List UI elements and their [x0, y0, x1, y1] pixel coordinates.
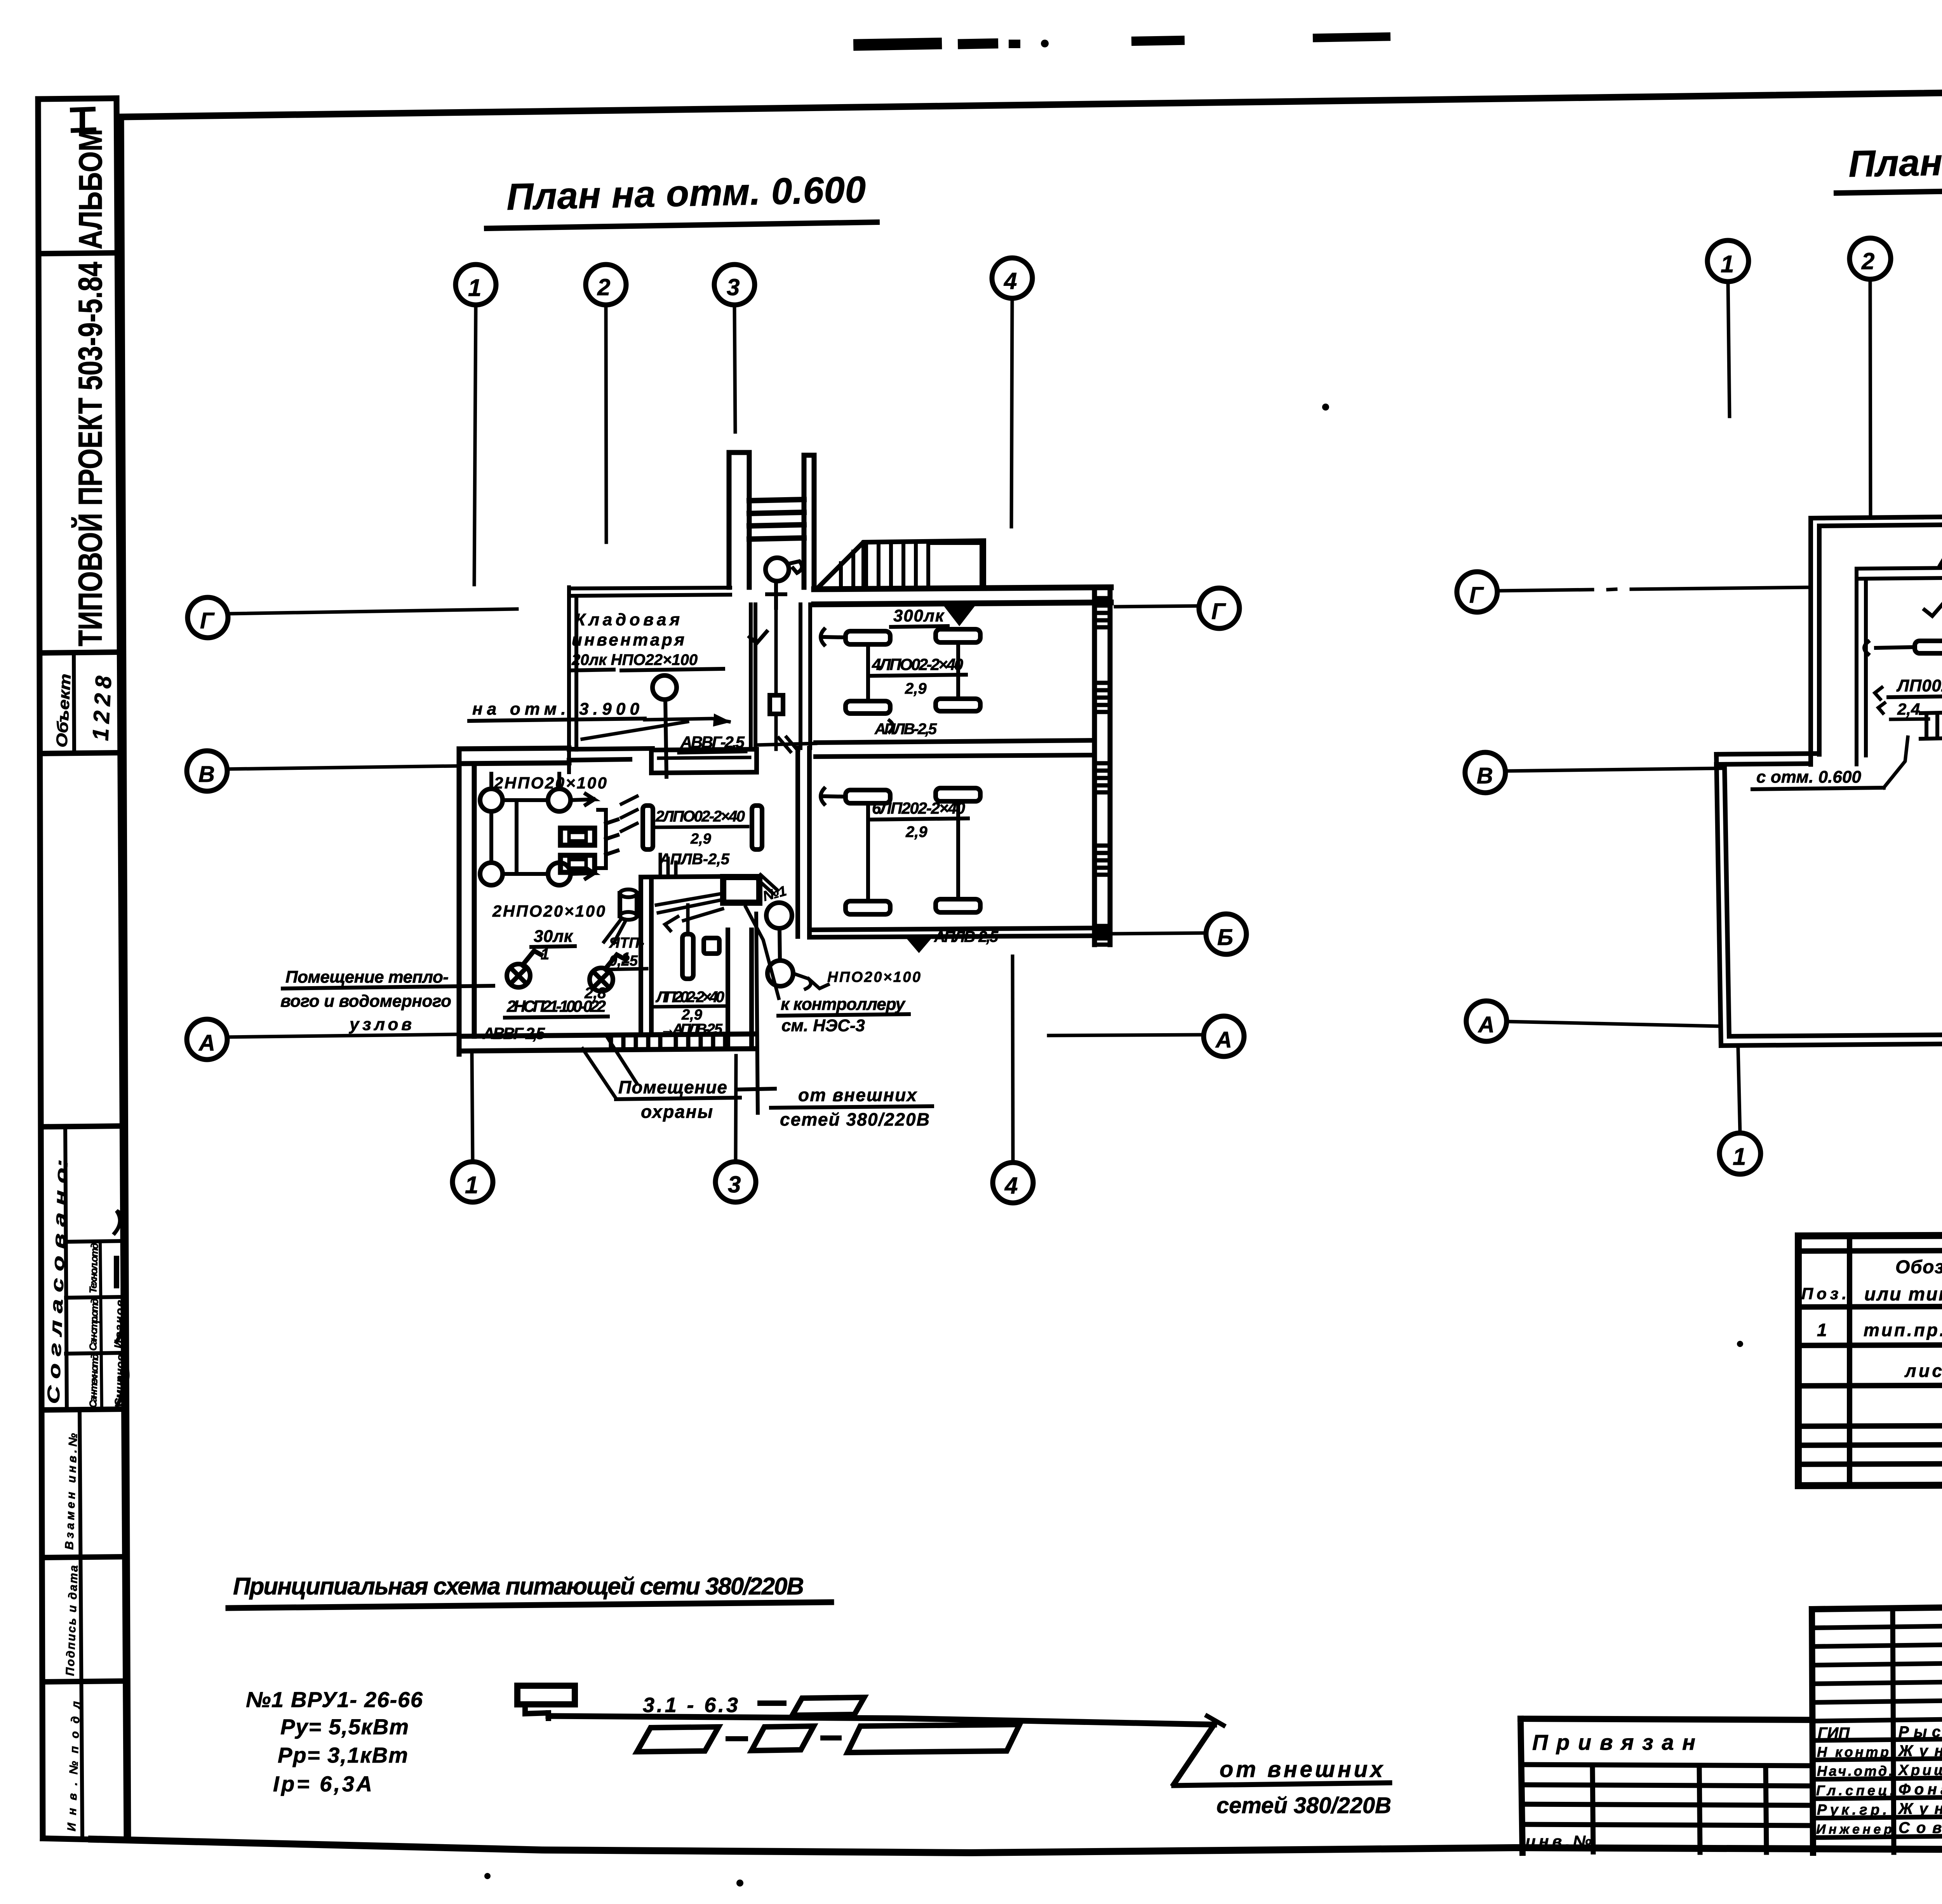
check mark symbol	[750, 632, 767, 643]
stray dot C	[484, 1873, 491, 1879]
teplo room lamp circle 2b	[548, 863, 571, 885]
p2 underline 2.4	[1891, 719, 1928, 719]
axis circle 2 top	[586, 265, 626, 305]
underline ot vneshnih plan	[771, 1106, 932, 1108]
plan2 title underline	[1836, 187, 1942, 193]
SECTION: left margin strip	[38, 98, 128, 1840]
svg-text:4: 4	[1004, 1173, 1018, 1199]
staff table left edge	[1812, 1609, 1813, 1853]
spec row line 5	[1798, 1462, 1942, 1464]
svg-text:3.1 - 6.3: 3.1 - 6.3	[643, 1693, 738, 1717]
lamp X 1 in teplo room	[507, 951, 541, 987]
SECTION: specification table	[1798, 1233, 1942, 1486]
SECTION: title block	[1521, 1596, 1942, 1857]
left block outer wall	[459, 749, 474, 1054]
svg-text:2НПО20×100: 2НПО20×100	[492, 902, 605, 920]
svg-text:Сова: Сова	[1898, 1819, 1942, 1836]
hook from lower lamp	[793, 973, 828, 989]
axis line 1 top	[474, 305, 476, 585]
top main wall right part	[814, 587, 1111, 604]
left block bottom wall	[459, 1034, 753, 1051]
middle wall between right rooms	[816, 740, 1095, 757]
hatch ticks near corridor top	[621, 796, 637, 831]
bottom wall of right rooms	[809, 928, 1110, 937]
svg-text:2,9: 2,9	[690, 831, 711, 847]
svg-text:тип.пр.5.407-19: тип.пр.5.407-19	[1864, 1320, 1942, 1340]
axis circle 3 bottom	[715, 1162, 756, 1202]
SECTION: left plan	[187, 169, 1246, 1203]
soglasovano row line 3	[66, 1353, 124, 1354]
signature upper scribble	[115, 1193, 124, 1233]
svg-text:1: 1	[1733, 1143, 1746, 1170]
stair block right part box	[932, 543, 981, 584]
window hatch 5 on right wall	[1095, 926, 1110, 945]
svg-text:4ЛПО02-2×40: 4ЛПО02-2×40	[872, 655, 963, 674]
window hatch 2 on right wall	[1095, 683, 1110, 712]
svg-text:см. НЭС-3: см. НЭС-3	[781, 1016, 865, 1035]
staff narrow row 2	[1812, 1643, 1942, 1646]
entrance tambour left wall	[729, 453, 749, 587]
svg-text:Рыскин: Рыскин	[1898, 1723, 1942, 1740]
svg-text:инвентаря: инвентаря	[572, 630, 684, 649]
privyazan grid v3	[1766, 1766, 1766, 1852]
wire between lamps	[780, 928, 780, 961]
svg-text:4: 4	[1004, 268, 1017, 294]
ohrana fixture wire	[665, 905, 688, 931]
underline 300lk	[891, 626, 948, 627]
svg-text:1: 1	[1721, 251, 1734, 278]
staff narrow row 5	[1812, 1699, 1942, 1702]
svg-text:2ЛПО02-2×40: 2ЛПО02-2×40	[655, 808, 745, 825]
ohrana small box	[704, 938, 719, 954]
na otm leader diagonal	[582, 719, 729, 739]
sbora connect wire c1	[866, 803, 870, 901]
wire bundle down corridor	[774, 608, 778, 749]
p2 axis circle 2 top	[1850, 238, 1891, 279]
underline 4LPO02	[870, 675, 966, 676]
switch box 1	[560, 828, 595, 845]
top wall left thin part	[569, 588, 730, 596]
kladovaya label underline a	[570, 670, 614, 670]
svg-text:300лк: 300лк	[893, 606, 945, 625]
spec row line 1	[1798, 1343, 1942, 1345]
top-right stair block outline	[820, 541, 984, 586]
svg-text:А: А	[1215, 1027, 1232, 1053]
soglasovano top divider	[42, 1126, 122, 1127]
svg-text:2,9: 2,9	[681, 1007, 702, 1023]
ladder rung 3	[749, 525, 804, 526]
p2 axis circle V left	[1465, 752, 1505, 793]
VRU niche wall	[728, 930, 752, 1049]
sbora feed hook	[821, 788, 846, 804]
cable trench inner tick	[659, 757, 750, 758]
corridor right wall lower	[800, 604, 810, 748]
YaTP leader	[604, 920, 626, 943]
top-right stair inner line	[861, 542, 865, 584]
p2 inner stair hatch	[1921, 712, 1942, 739]
spec row line 4	[1798, 1443, 1942, 1445]
lamp X 2 in teplo room	[590, 955, 624, 991]
kladovaya label underline b	[621, 669, 723, 670]
window hatch 1 on right wall	[1095, 598, 1110, 627]
axis line B right	[1112, 933, 1206, 934]
dash after label	[757, 1700, 787, 1706]
instruktor room fixture bar r1c2	[936, 629, 980, 642]
teplo vertical wire	[491, 774, 559, 874]
svg-text:вого и водомерного: вого и водомерного	[280, 992, 451, 1011]
smudge dash 4	[1131, 36, 1185, 46]
svg-text:Г: Г	[1469, 583, 1484, 608]
staff row nachotd	[1813, 1776, 1942, 1779]
svg-text:0,25: 0,25	[609, 953, 638, 969]
instruktor room fixture bar r1c1	[846, 631, 890, 644]
axis circle A left	[187, 1019, 227, 1060]
spec table outer border	[1798, 1233, 1942, 1486]
parallelogram low 2	[752, 1726, 814, 1751]
p2 bottom wall	[1721, 1034, 1942, 1046]
underline 2NSP21	[505, 1016, 608, 1018]
ventilation triangle	[948, 608, 971, 623]
corridor lamp wire down	[767, 581, 785, 608]
dash in technol row (rotated)	[114, 1258, 119, 1286]
axis line 3 bottom	[736, 1056, 736, 1161]
divider above object box	[40, 652, 120, 653]
svg-text:ЛП202-2×40: ЛП202-2×40	[655, 989, 724, 1006]
staff row gip	[1813, 1737, 1942, 1740]
spec row line 2	[1798, 1383, 1942, 1386]
kladovaya lamp	[653, 675, 677, 700]
svg-text:ГИП: ГИП	[1818, 1725, 1850, 1742]
svg-text:Жунко: Жунко	[1898, 1800, 1942, 1817]
svg-text:Ру= 5,5кВт: Ру= 5,5кВт	[280, 1714, 409, 1739]
fixture feed from wall c1	[821, 629, 846, 645]
stair hatch lines	[841, 543, 928, 585]
svg-text:НПО20×100: НПО20×100	[827, 969, 921, 985]
p2 s otm underline	[1752, 788, 1884, 789]
svg-text:Жунко: Жунко	[1898, 1742, 1942, 1760]
svg-text:инв.№: инв.№	[1526, 1832, 1592, 1850]
divider under ALBOM box	[38, 253, 117, 254]
p2 inner top wall	[1857, 565, 1942, 579]
triangle bottom sbora	[908, 937, 930, 950]
axis line 3 top	[734, 305, 735, 432]
underline ot vneshnih	[1174, 1783, 1390, 1786]
sbora connect wire c2	[956, 801, 960, 899]
p2 axis line G left dashdot	[1498, 587, 1811, 591]
axis line 4 top	[1011, 299, 1012, 527]
teplo leader line	[283, 986, 493, 989]
soglasovano row line 1	[66, 1241, 124, 1242]
smudge dash 2	[958, 38, 998, 49]
underline AVVG top	[679, 752, 746, 753]
instruktor room fixture bar r2c1	[846, 701, 890, 714]
svg-text:Фонарев: Фонарев	[1898, 1781, 1942, 1798]
SECTION: page marks	[484, 32, 1942, 1887]
leader ohrany a	[583, 1035, 637, 1098]
corridor lamp	[766, 558, 789, 581]
staff row nkontr	[1813, 1757, 1942, 1760]
axis circle V left	[187, 751, 227, 791]
spec col line poz	[1847, 1236, 1852, 1485]
underline	[655, 1006, 727, 1007]
ladder rung 2	[749, 512, 804, 513]
axis circle 1 top	[456, 265, 496, 305]
svg-text:АЛЬБОМ: АЛЬБОМ	[72, 129, 109, 249]
svg-text:6ЛП202-2×40: 6ЛП202-2×40	[872, 799, 965, 817]
svg-text:Сан-стр.отд: Сан-стр.отд	[87, 1298, 101, 1351]
svg-text:ТИПОВОЙ ПРОЕКТ 503-9-5.84: ТИПОВОЙ ПРОЕКТ 503-9-5.84	[71, 262, 109, 646]
feeder end tick	[1207, 1716, 1223, 1725]
strip outer right edge	[117, 98, 127, 1840]
staff narrow row 3	[1812, 1661, 1942, 1665]
ohrana room left wall	[641, 877, 651, 1034]
p2 axis line 2 top	[1870, 280, 1871, 517]
svg-text:АВВГ-2,5: АВВГ-2,5	[482, 1024, 545, 1043]
window hatch 3 on right wall	[1095, 763, 1110, 792]
corridor fixtures vertical pair right	[752, 806, 762, 849]
bus drop tick	[546, 1713, 551, 1718]
SECTION: right plan	[1457, 137, 1942, 1174]
svg-text:1: 1	[465, 1172, 478, 1199]
p2 axis circle G left	[1457, 572, 1497, 612]
fixture connect wire c1	[866, 644, 870, 701]
svg-text:от внешних: от внешних	[798, 1085, 917, 1105]
axis line 4 bottom	[1013, 956, 1013, 1162]
teplo room lamp circle 2a	[480, 863, 503, 885]
na otm underline	[469, 719, 645, 721]
svg-text:2,9: 2,9	[905, 823, 927, 841]
signature ivanov	[117, 1304, 127, 1342]
privyazan grid v1	[1592, 1765, 1593, 1852]
lower rows inner column divider	[80, 1410, 82, 1839]
p2 axis circle 1 top	[1707, 240, 1749, 282]
switch box 2	[560, 855, 595, 872]
svg-text:1: 1	[468, 275, 481, 301]
axis line A right	[1049, 1035, 1203, 1036]
smudge dot	[1041, 40, 1049, 47]
right outer wall line a	[1092, 587, 1097, 945]
ohrana room top wall	[641, 876, 758, 877]
soglasovano row line 2	[66, 1297, 124, 1298]
axis circle B right	[1206, 914, 1246, 954]
p2 outer top wall	[1811, 513, 1942, 526]
axis circle 3 top	[714, 265, 755, 305]
spec row line 3	[1798, 1424, 1942, 1426]
schematic title underline	[228, 1602, 831, 1608]
svg-text:ЯТП-: ЯТП-	[609, 935, 644, 951]
VRU box symbol	[517, 1686, 575, 1704]
parallelogram low 3 long	[847, 1725, 1020, 1753]
entrance tambour right wall	[804, 455, 814, 587]
instruktor room fixture bar r2c2	[936, 699, 980, 711]
svg-text:Рр= 3,1кВт: Рр= 3,1кВт	[278, 1743, 408, 1767]
staff row inzhener	[1813, 1834, 1942, 1838]
p2 s otm leader	[1884, 737, 1908, 788]
YaTP cylinder	[620, 893, 637, 916]
fixture connect wire c2	[956, 642, 960, 699]
svg-text:лист 21: лист 21	[1904, 1361, 1942, 1381]
svg-text:В: В	[1477, 763, 1493, 788]
wall bracket symbol	[598, 810, 618, 868]
svg-text:→АПЛВ-2,5: →АПЛВ-2,5	[660, 1021, 723, 1037]
svg-text:20лк НПО22×100: 20лк НПО22×100	[571, 651, 698, 668]
small switch box under corridor	[770, 695, 783, 714]
p2 axis circle 1 bottom	[1719, 1133, 1761, 1174]
strip bottom edge	[43, 1838, 127, 1840]
svg-text:Г: Г	[1211, 599, 1226, 624]
p2 fixture feed wire	[1864, 642, 1915, 654]
underline ohrany	[616, 1098, 740, 1099]
divider wall between ohrana and sbora room	[798, 748, 809, 936]
stray dot A	[1322, 404, 1329, 411]
axis line G left	[228, 609, 517, 614]
smudge dash 3	[1009, 40, 1020, 48]
axis line 2 top	[606, 305, 606, 542]
p2 lamp hook wire	[1940, 555, 1942, 605]
svg-text:Технол.отд: Технол.отд	[87, 1243, 101, 1293]
ladder rung 4	[749, 538, 804, 539]
ladder rung 1	[749, 499, 804, 501]
svg-text:сетей 380/220В: сетей 380/220В	[780, 1109, 929, 1130]
axis circle 4 bottom	[993, 1163, 1033, 1203]
axis circle G right	[1199, 588, 1239, 628]
privyazan grid v2	[1699, 1765, 1700, 1852]
p2 leader hooks left	[1875, 687, 1885, 713]
p2 inner left wall	[1857, 569, 1866, 764]
axis circle G left	[188, 597, 228, 638]
soglasovano bottom divider	[43, 1409, 125, 1410]
stray dot D	[1737, 1341, 1743, 1347]
window hatch 4 on right wall	[1095, 846, 1110, 875]
strip outer left edge	[38, 99, 43, 1838]
p2 axis line A left	[1507, 1022, 1719, 1026]
staff narrow row 6	[1813, 1717, 1942, 1721]
teplo room lamp circle 1b	[548, 789, 571, 811]
underline 6LPO02	[870, 818, 968, 820]
svg-text:1: 1	[1817, 1320, 1827, 1340]
svg-text:2,9: 2,9	[905, 680, 927, 697]
svg-text:АВВГ-2,5: АВВГ-2,5	[680, 733, 745, 751]
sbora room fixture bar r1c1	[846, 790, 890, 803]
svg-text:Хришанв̂ч: Хришанв̂ч	[1898, 1762, 1942, 1779]
svg-text:2: 2	[1861, 248, 1874, 274]
svg-text:План на отм. 3.900: План на отм. 3.900	[1848, 137, 1942, 185]
smudge dash 1	[853, 38, 942, 51]
SECTION: schematic	[228, 1573, 1391, 1818]
spec table top double line	[1798, 1248, 1942, 1251]
axis circle 4 top	[992, 258, 1032, 298]
leader arrowhead	[714, 715, 729, 726]
svg-text:ЛП002-2×40: ЛП002-2×40	[1896, 676, 1942, 695]
axis line 1 bottom	[472, 1055, 473, 1161]
divider under object box	[41, 753, 120, 754]
svg-text:2: 2	[597, 274, 610, 300]
p2 left step wall	[1716, 754, 1819, 764]
frame left border	[121, 117, 128, 1840]
stray dot B	[736, 1880, 743, 1887]
svg-text:3: 3	[728, 1171, 741, 1197]
frame top border	[121, 84, 1942, 117]
left block top wall	[459, 748, 569, 764]
VRU box N1	[723, 877, 759, 903]
spec header bottom line	[1798, 1304, 1942, 1307]
axis circle A right bottom	[1204, 1016, 1244, 1056]
leader to controller	[746, 907, 779, 998]
svg-text:Б: Б	[1217, 925, 1233, 950]
VRU box tail	[525, 1704, 548, 1714]
soglasovano label column divider	[65, 1126, 67, 1410]
kladovaya lamp drop wire	[665, 700, 666, 777]
p2 fluor fixture bar	[1915, 641, 1942, 653]
svg-text:А: А	[1477, 1012, 1495, 1037]
row divider vypolnil	[43, 1557, 125, 1558]
svg-text:А: А	[198, 1030, 215, 1056]
axis line A left	[228, 1034, 455, 1037]
wires into VRU	[656, 893, 723, 921]
corridor lamp hook	[788, 561, 802, 573]
svg-text:В: В	[198, 762, 215, 787]
main bus line	[548, 1716, 1214, 1725]
teplo room lamp circle 1a	[480, 789, 503, 811]
plan1 title underline	[487, 222, 877, 228]
signature smirnov	[117, 1361, 128, 1405]
parallelogram low 1	[637, 1727, 719, 1752]
dash low 2	[820, 1735, 842, 1740]
ohrana vertical fixture	[682, 934, 693, 979]
p2 axis line V left	[1506, 768, 1721, 771]
teplo lamps wire row1	[503, 794, 594, 805]
svg-text:Iр= 6,3А: Iр= 6,3А	[273, 1772, 372, 1796]
svg-text:к контроллеру: к контроллеру	[781, 995, 906, 1014]
svg-text:сетей 380/220В: сетей 380/220В	[1216, 1793, 1391, 1818]
corridor fixtures vertical pair left	[643, 806, 653, 849]
privyazan grid h2	[1522, 1785, 1812, 1786]
underline YaTP	[606, 969, 647, 969]
object box inner divider	[74, 653, 74, 753]
external feed line	[738, 914, 775, 1113]
sbora room fixture bar r2c1	[846, 901, 890, 914]
wire messy cluster	[660, 855, 778, 893]
smudge dash 5	[1313, 32, 1390, 42]
staff row glspec	[1813, 1796, 1942, 1799]
svg-text:2НПО20×100: 2НПО20×100	[494, 774, 607, 792]
underline central	[654, 827, 748, 827]
feeder diagonal	[1174, 1725, 1214, 1784]
privyazan grid h1	[1521, 1765, 1812, 1766]
svg-text:АПЛВ-2,5: АПЛВ-2,5	[874, 721, 937, 738]
p2 underline AP002	[1888, 696, 1942, 697]
axis line G right	[1115, 606, 1199, 607]
teplo lamps wire row2	[503, 868, 594, 879]
right outer wall line b	[1108, 587, 1113, 945]
svg-text:Принципиальная схема питающе: Принципиальная схема питающей сети 380/2…	[233, 1573, 804, 1600]
bottom wall window ticks	[611, 1034, 725, 1049]
svg-text:Г: Г	[200, 608, 215, 634]
svg-text:узлов: узлов	[349, 1015, 412, 1034]
sbora room fixture bar r2c2	[936, 899, 980, 912]
svg-text:2,4: 2,4	[1897, 700, 1920, 718]
row divider podpis	[44, 1681, 125, 1682]
lamp pair right of VRU upper	[766, 903, 792, 928]
wire bundle across corridor	[757, 737, 816, 752]
dash low 1	[726, 1736, 748, 1741]
strip top edge	[38, 98, 117, 99]
axis circle 1 bottom	[452, 1162, 493, 1202]
axis line V left	[227, 766, 457, 769]
staff narrow row 4	[1812, 1680, 1942, 1684]
p2 check tick	[1925, 604, 1942, 616]
soglasovano names column divider	[100, 1242, 102, 1410]
